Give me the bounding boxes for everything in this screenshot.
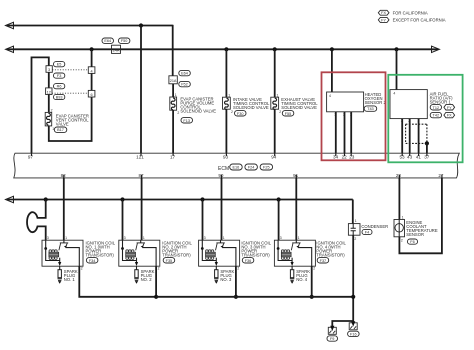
- upper supply bus wire: [6, 22, 173, 28]
- svg-text:2: 2: [354, 237, 356, 241]
- svg-text:21A: 21A: [170, 79, 177, 83]
- svg-text:4: 4: [91, 69, 93, 73]
- svg-text:93: 93: [223, 155, 229, 160]
- svg-text:TRANSISTOR): TRANSISTOR): [86, 252, 115, 257]
- wire O2 pin2 to ECM 22: [344, 112, 346, 156]
- svg-text:37: 37: [424, 155, 430, 160]
- wire A/F pin1 to ECM 41: [418, 119, 420, 156]
- spark plug no. 3: [214, 266, 234, 284]
- EVAP canister purge volume control solenoid valve: [170, 93, 216, 123]
- inline connector 24A on lower bus with E64/F50: [102, 38, 130, 53]
- svg-text:94: 94: [271, 155, 277, 160]
- svg-text:F9: F9: [330, 337, 334, 341]
- svg-text:1: 1: [143, 236, 145, 240]
- ECM top pin 43: [407, 153, 413, 159]
- wire ECM 28 to coolant sensor: [398, 178, 400, 220]
- wire intake solenoid to ECM pin 93: [225, 109, 227, 156]
- wire purge solenoid to ECM pin 17: [172, 110, 174, 156]
- junction node coil 4 ground: [310, 295, 314, 299]
- wire ECM pin121 branch from upper bus: [140, 26, 142, 157]
- lower supply bus wire: [6, 46, 440, 52]
- ECM bottom pin 87: [138, 173, 144, 178]
- dotted connector link 3-4: [52, 69, 87, 71]
- svg-text:SOLENOID VALVE: SOLENOID VALVE: [281, 105, 317, 110]
- wire coil 3 pin 2 to ground rail: [235, 266, 237, 297]
- ECM bottom pin 91: [293, 173, 299, 178]
- junction node ignition bus / coil 3: [200, 197, 204, 201]
- svg-text:22: 22: [342, 155, 348, 160]
- svg-text:SENSOR 1: SENSOR 1: [430, 99, 452, 104]
- svg-text:3: 3: [47, 236, 49, 240]
- svg-text:4: 4: [329, 94, 331, 98]
- wire branch to second ground: [332, 321, 353, 327]
- ignition coil 3 (with power transistor): [199, 236, 272, 271]
- spark plug no. 4: [290, 266, 310, 284]
- wire A/F pin3 to ECM 53: [401, 119, 403, 156]
- svg-text:2: 2: [158, 267, 160, 271]
- wire coil 4 pin 2 to ground rail: [311, 266, 313, 297]
- ECM top pin 121: [136, 153, 144, 159]
- svg-text:43: 43: [407, 155, 413, 160]
- condenser: [348, 219, 388, 241]
- wire vent valve bottom loop to box 6/4 and bus: [49, 97, 92, 141]
- svg-text:2: 2: [401, 239, 403, 243]
- oval E5: [54, 62, 65, 67]
- svg-text:53: 53: [399, 155, 405, 160]
- wire box4 up to lower bus: [91, 49, 93, 67]
- wire between box6 and box4: [91, 73, 93, 90]
- svg-text:2: 2: [313, 267, 315, 271]
- svg-text:1: 1: [223, 236, 225, 240]
- exhaust valve timing control solenoid valve branch: [274, 49, 276, 97]
- svg-text:F16: F16: [350, 332, 357, 336]
- ground F16: [348, 321, 360, 336]
- wire coil 2 pin 2 to ground rail: [155, 266, 157, 297]
- svg-text:F6: F6: [410, 240, 414, 244]
- ECM band: [14, 153, 460, 178]
- svg-text:23: 23: [349, 155, 355, 160]
- svg-text:F24: F24: [248, 166, 255, 170]
- svg-text:F30: F30: [237, 112, 244, 116]
- svg-text:TRANSISTOR): TRANSISTOR): [241, 252, 270, 257]
- wire upper bus corner down to purge solenoid branch: [172, 25, 174, 76]
- oval B93: [54, 94, 65, 99]
- svg-text:1: 1: [65, 236, 67, 240]
- svg-text:F52: F52: [181, 83, 188, 87]
- svg-text:24A: 24A: [113, 49, 120, 53]
- svg-text:90: 90: [218, 173, 224, 178]
- svg-text:SENSOR 2: SENSOR 2: [365, 100, 387, 105]
- ECM top pin 97: [28, 153, 34, 159]
- wire bus to coil 4: [278, 200, 280, 241]
- heated oxygen sensor 2: [327, 92, 387, 116]
- svg-text:F50: F50: [121, 39, 128, 43]
- wire air fuel ratio sensor supply: [396, 49, 398, 89]
- legend hexagon FX: [378, 10, 428, 15]
- svg-text:FOR CALIFORNIA: FOR CALIFORNIA: [393, 10, 428, 15]
- svg-text:27: 27: [438, 173, 444, 178]
- svg-text:F13: F13: [183, 119, 190, 123]
- svg-text:2: 2: [177, 111, 179, 115]
- spark plug no. 2: [134, 266, 154, 284]
- oval R6: [54, 84, 65, 89]
- svg-text:2: 2: [231, 110, 233, 114]
- connector box 3: [46, 66, 52, 73]
- svg-text:SENSOR: SENSOR: [406, 232, 424, 237]
- svg-text:F4: F4: [365, 231, 369, 235]
- svg-text:SOLENOID VALVE: SOLENOID VALVE: [180, 109, 216, 114]
- svg-text:F36: F36: [245, 259, 252, 263]
- junction node coil 2 ground: [154, 295, 158, 299]
- svg-text:T43: T43: [367, 107, 374, 111]
- air fuel ratio (A/F) sensor 1: [390, 90, 455, 124]
- EVAP canister vent control valve solenoid: [45, 109, 89, 133]
- junction node on dashed wire: [425, 141, 429, 145]
- svg-text:ECM: ECM: [218, 166, 229, 172]
- ECM top pin 34: [333, 153, 339, 159]
- svg-text:91: 91: [293, 173, 299, 178]
- svg-text:4: 4: [393, 91, 395, 95]
- svg-text:F25: F25: [263, 166, 270, 170]
- wire O2 pin1 to ECM 23: [350, 112, 352, 156]
- junction node coil 3 ground: [234, 295, 238, 299]
- svg-text:1: 1: [298, 236, 300, 240]
- svg-text:F3: F3: [57, 74, 61, 78]
- svg-text:6: 6: [91, 93, 93, 97]
- svg-text:R6: R6: [57, 85, 62, 89]
- svg-text:E64: E64: [104, 39, 111, 43]
- junction node ignition bus / coil 2: [120, 197, 124, 201]
- spark plug no. 1: [58, 266, 78, 284]
- svg-text:3: 3: [48, 68, 50, 72]
- svg-text:28: 28: [396, 173, 402, 178]
- svg-text:F37: F37: [320, 259, 327, 263]
- svg-text:2: 2: [279, 110, 281, 114]
- svg-text:NO. 3: NO. 3: [220, 277, 232, 282]
- svg-text:3: 3: [124, 236, 126, 240]
- svg-text:87: 87: [138, 173, 144, 178]
- svg-text:82: 82: [61, 173, 67, 178]
- svg-text:E5: E5: [57, 63, 62, 67]
- svg-text:3: 3: [280, 236, 282, 240]
- svg-text:2: 2: [237, 267, 239, 271]
- ECM top pin 93: [223, 153, 229, 159]
- svg-text:NO. 2: NO. 2: [141, 277, 153, 282]
- svg-text:FX: FX: [381, 11, 386, 15]
- svg-text:F55: F55: [285, 112, 292, 116]
- ignition coil 2 (with power transistor): [119, 236, 193, 271]
- svg-text:F35: F35: [166, 259, 173, 263]
- wire box12 down to vent valve: [48, 95, 50, 113]
- svg-text:41: 41: [416, 155, 422, 160]
- junction node lower bus / exhaust valve timing solenoid: [273, 47, 277, 51]
- junction node ignition bus / coil 1: [44, 197, 48, 201]
- wire ECM 90 to coil 3: [221, 178, 223, 240]
- svg-text:F34: F34: [89, 259, 96, 263]
- green highlight box: [388, 75, 462, 163]
- junction node lower bus / intake valve timing solenoid: [224, 47, 228, 51]
- wire A/F pin2 to ECM 43: [409, 119, 411, 156]
- engine coolant temperature sensor: [394, 216, 438, 245]
- ECM top pin 22: [342, 153, 348, 159]
- svg-text:1: 1: [355, 219, 357, 223]
- intake valve timing control solenoid valve branch: [225, 49, 227, 97]
- wire ECM 87 to coil 2: [141, 178, 143, 240]
- svg-text:E16: E16: [233, 166, 240, 170]
- wire exhaust solenoid to ECM pin 94: [274, 109, 276, 156]
- ground rail wire: [157, 296, 354, 298]
- dotted connector link 12-6: [52, 92, 87, 94]
- dashed optional wiring rectangle: [406, 124, 427, 143]
- ECM top pin 37: [424, 153, 430, 159]
- wire ECM 91 to coil 4: [295, 178, 297, 240]
- svg-text:TRANSISTOR): TRANSISTOR): [316, 252, 345, 257]
- inline connector 21A with E64/F52: [169, 70, 190, 86]
- wire ignition bus corner down to condenser: [352, 200, 354, 224]
- svg-text:34: 34: [333, 155, 339, 160]
- legend hexagon FY: [378, 17, 445, 22]
- svg-text:17: 17: [170, 155, 176, 160]
- wire 21A to purge solenoid: [172, 84, 174, 97]
- ECM bottom pin 28: [396, 173, 402, 178]
- wire junction to ECM 37: [426, 143, 428, 156]
- wire heated oxygen sensor supply: [331, 49, 333, 92]
- svg-text:T12: T12: [433, 106, 440, 110]
- ECM bottom pin 27: [438, 173, 444, 178]
- ECM top pin 17: [170, 153, 176, 159]
- svg-text:3: 3: [204, 236, 206, 240]
- svg-text:EXCEPT FOR CALIFORNIA: EXCEPT FOR CALIFORNIA: [393, 18, 446, 23]
- junction node ignition bus / coil 4: [277, 197, 281, 201]
- ECM top pin 41: [416, 153, 422, 159]
- ignition coil 4 (with power transistor): [274, 236, 346, 271]
- svg-text:121: 121: [136, 155, 144, 160]
- oval F3: [54, 73, 65, 78]
- svg-text:B17: B17: [57, 128, 64, 132]
- svg-text:VALVE: VALVE: [56, 121, 69, 126]
- svg-text:FX: FX: [447, 114, 452, 118]
- svg-text:E64: E64: [181, 72, 188, 76]
- ignition coil 1 (with power transistor): [42, 236, 116, 271]
- wire bus to coil 3: [202, 200, 204, 241]
- svg-text:CONDENSER: CONDENSER: [361, 224, 388, 229]
- wire bus to coil 2: [122, 200, 124, 241]
- wire O2 pin3 to ECM 34: [335, 112, 337, 156]
- ECM bottom pin 82: [61, 173, 67, 178]
- svg-text:97: 97: [28, 155, 34, 160]
- junction node lower bus / heated oxygen sensor: [330, 47, 334, 51]
- red highlight box: [322, 72, 386, 160]
- svg-text:FY: FY: [381, 18, 386, 22]
- wire condenser to ground junction: [352, 235, 354, 323]
- junction node lower bus / air fuel ratio sensor: [394, 47, 398, 51]
- ECM label with connector ovals: [218, 164, 273, 172]
- svg-text:FY: FY: [447, 106, 452, 110]
- junction node condenser/ground rail: [351, 295, 355, 299]
- wire coolant sensor return loop to ECM 27: [399, 178, 442, 253]
- ECM top pin 23: [349, 153, 355, 159]
- junction node lower bus / EVAP vent valve: [90, 47, 94, 51]
- ground F9: [327, 326, 338, 341]
- ECM top pin 94: [271, 153, 277, 159]
- svg-text:2: 2: [81, 267, 83, 271]
- svg-text:T42: T42: [433, 114, 440, 118]
- ignition bus wire: [6, 196, 353, 202]
- wire between box3 and box12: [48, 72, 50, 88]
- wire ECM 82 to coil 1: [63, 178, 65, 240]
- svg-text:TRANSISTOR): TRANSISTOR): [162, 252, 191, 257]
- wire loop to ignition coil 1: [27, 200, 46, 241]
- connector box 6: [88, 90, 95, 97]
- connector box 12: [46, 88, 52, 95]
- svg-text:12: 12: [47, 90, 51, 94]
- svg-text:NO. 4: NO. 4: [296, 277, 308, 282]
- svg-text:B93: B93: [56, 96, 63, 100]
- ECM bottom pin 90: [218, 173, 224, 178]
- wire left branch to ECM pin 97: [32, 57, 49, 156]
- junction node on upper bus at x141: [139, 23, 143, 27]
- svg-text:NO. 1: NO. 1: [64, 277, 76, 282]
- wire coil 1 pin 2 to ground rail: [79, 266, 156, 297]
- ECM top pin 53: [399, 153, 405, 159]
- connector box 4: [88, 67, 95, 74]
- svg-text:SOLENOID VALVE: SOLENOID VALVE: [233, 105, 269, 110]
